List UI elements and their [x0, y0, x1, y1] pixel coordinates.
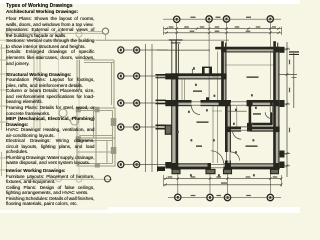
underlay faint plan left margin column A — [0, 44, 41, 176]
left grid bubble column 2 — [134, 47, 140, 168]
wall: bedroom top thick — [225, 127, 279, 130]
door swing arcs — [192, 106, 272, 163]
porch top tick bars — [169, 39, 183, 43]
wall: wing top thin — [171, 78, 221, 80]
underlay faint grid circles top row — [5, 30, 103, 37]
top dimension line 1 — [164, 27, 282, 30]
pilaster: right wall low — [280, 151, 285, 158]
wall: major thin — [171, 105, 279, 107]
wall: major thick mid segment — [201, 100, 232, 103]
wall: tower left thin — [225, 52, 227, 101]
left grid bubble column 1 — [118, 47, 124, 168]
top dimension line 2 — [164, 31, 282, 34]
pilaster: left wall bottom — [165, 162, 171, 169]
wall: entry notch stub left — [202, 68, 205, 75]
junction right x bedroom top — [273, 127, 279, 133]
wall: bedroom top thin — [226, 130, 274, 132]
junction left x major — [171, 100, 179, 106]
top bubble connecting line — [163, 18, 281, 20]
underlay faint room structure under text — [59, 60, 115, 166]
corner cross left tower vertical thin — [225, 43, 226, 47]
right top tick bars — [289, 51, 299, 55]
white scan band bottom — [0, 210, 300, 213]
top span dimension text — [191, 17, 252, 18]
left grid bubble letters — [120, 49, 138, 166]
bottom bubble connecting line — [168, 196, 281, 198]
bottom grid bubbles — [175, 194, 274, 201]
wall: bathroom box right thick — [270, 100, 273, 124]
pilaster: bottom wall g1 — [172, 169, 180, 173]
wall: tower top thin — [221, 51, 279, 53]
underlay darker grid circle top — [102, 28, 108, 34]
wall: tower top thick — [221, 47, 279, 50]
left dimension tick bars (window symbols) — [156, 74, 167, 171]
tiny door letter marks — [177, 67, 257, 176]
corner cross right tower vertical thin — [277, 43, 278, 47]
wall: bathroom box bottom thick — [249, 123, 273, 126]
white scan band top — [0, 0, 300, 4]
pilaster: right wall mid — [280, 100, 285, 107]
right dimension numbers (rotated) — [289, 60, 290, 133]
pilaster: right wall top — [280, 47, 285, 53]
jamb block bottom door — [208, 163, 212, 173]
wall: major thick left segment — [171, 100, 191, 103]
top dimension line 2 numbers — [190, 31, 251, 32]
grid extension verticals top — [164, 22, 282, 101]
kitchen window flag tick — [192, 69, 195, 73]
white scan band bottom right — [108, 207, 300, 213]
long thin datum line across page — [0, 39, 96, 41]
underlay faint grid vertical lines — [37, 37, 79, 175]
wall: interior A thin — [229, 106, 231, 164]
interior extension thin verticals — [182, 52, 273, 164]
underlay junction masses — [76, 107, 117, 168]
corner cross left tower horizontal — [215, 47, 221, 50]
junction right x bottom — [273, 163, 279, 169]
pilaster: left wall mid1 — [165, 100, 171, 106]
junction right x tower top — [273, 47, 279, 52]
thick wall faces — [171, 47, 279, 169]
bottom overall dimension number — [221, 182, 227, 183]
wall: entry notch stub right — [209, 68, 212, 75]
top grid bubble numbers — [176, 18, 272, 21]
junction major x bathroom left — [247, 100, 253, 106]
wall: wing top thick — [171, 73, 224, 76]
bottom dimension line 1 — [164, 177, 283, 180]
grid bubble left-bottom dark — [104, 176, 110, 182]
pilaster: bottom wall g3 — [224, 169, 232, 173]
junction tower left x wing top — [221, 73, 226, 79]
junction tower top left corner — [221, 47, 226, 52]
top dimension line 1 numbers — [169, 26, 276, 27]
pilaster: bottom wall g2 — [206, 169, 215, 173]
left vertical dimension lines — [146, 44, 158, 172]
pilaster: left wall top — [165, 73, 171, 79]
right secondary dimension line — [292, 53, 297, 108]
bottom dimension line 2 — [164, 184, 283, 187]
bottom extension verticals — [164, 173, 282, 194]
wall: bathroom box left thick — [249, 100, 252, 124]
thin wall faces — [171, 47, 279, 170]
pilaster: left wall mid2 — [165, 125, 171, 134]
wall core mid-tone fills — [171, 47, 279, 170]
right vertical dimension line — [279, 42, 298, 177]
wall: left inner face — [176, 73, 179, 169]
junction left x bottom — [171, 163, 179, 169]
jamb block major wall up — [206, 97, 209, 101]
underlay faint grid circles bottom row — [20, 176, 112, 183]
bottom wall thick face — [171, 167, 279, 170]
junction major x right wall — [273, 100, 279, 106]
thin line left of plan — [157, 49, 210, 51]
junction wallA x bedroom top — [225, 127, 231, 133]
corner cross left tower vertical — [221, 41, 224, 47]
junction left x wing top — [171, 73, 179, 79]
junction tower base flare — [219, 100, 231, 106]
left grid row lines — [124, 50, 168, 165]
wall: right outer thick — [273, 52, 276, 164]
pilaster: right wall corner — [280, 162, 285, 169]
wall: major thick right segment — [247, 100, 279, 103]
wall: interior A thick — [225, 100, 228, 169]
pilaster: bottom wall g4 — [271, 169, 279, 173]
wall: left outer face — [171, 73, 173, 169]
bottom bubble span numbers — [191, 195, 251, 196]
bottom wall core mid-tone — [171, 164, 279, 167]
porch lines above left wing — [172, 41, 179, 74]
junction blocks and pilasters — [165, 41, 284, 174]
corner cross right tower vertical — [273, 41, 276, 47]
top grid bubbles — [174, 16, 274, 23]
junction wallA x bottom wall — [225, 163, 231, 169]
room labels — [193, 76, 261, 146]
wall: tower left thick — [221, 47, 224, 103]
junction bathroom left corner mass — [247, 123, 252, 132]
wall: right inner thin — [278, 47, 280, 170]
door threshold lines — [192, 102, 273, 168]
bottom grid bubble numbers — [177, 196, 271, 199]
wall: bottom top thin — [171, 163, 279, 165]
wall: entry notch cap — [202, 67, 212, 68]
bottom dimension line 1 numbers — [168, 176, 278, 177]
